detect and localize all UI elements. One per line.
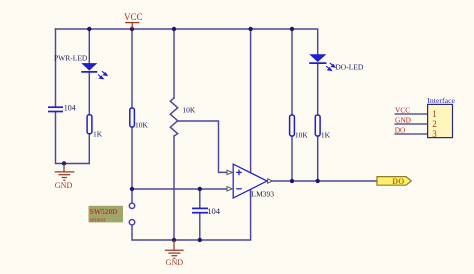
svg-text:PWR-LED: PWR-LED [54, 54, 88, 63]
svg-text:1K: 1K [321, 131, 331, 140]
svg-text:SW520D: SW520D [90, 207, 118, 216]
svg-text:10K: 10K [295, 131, 309, 140]
svg-text:2: 2 [432, 119, 437, 129]
svg-text:DO: DO [395, 126, 406, 135]
svg-text:1K: 1K [93, 129, 103, 138]
svg-text:10K: 10K [135, 121, 149, 130]
svg-text:VCC: VCC [124, 12, 143, 22]
svg-text:DO: DO [392, 177, 404, 186]
svg-text:104: 104 [64, 104, 76, 113]
svg-text:10K: 10K [182, 105, 196, 114]
svg-text:Interface: Interface [427, 96, 455, 105]
svg-text:LM393: LM393 [252, 190, 275, 199]
svg-text:DO-LED: DO-LED [335, 63, 363, 72]
svg-text:GND: GND [166, 258, 184, 267]
svg-text:1: 1 [432, 109, 437, 119]
svg-text:3: 3 [432, 129, 437, 139]
svg-text:sensor: sensor [90, 216, 107, 223]
svg-text:VCC: VCC [395, 106, 410, 115]
svg-text:GND: GND [55, 181, 73, 190]
svg-text:GND: GND [395, 116, 412, 125]
svg-text:104: 104 [207, 206, 221, 216]
